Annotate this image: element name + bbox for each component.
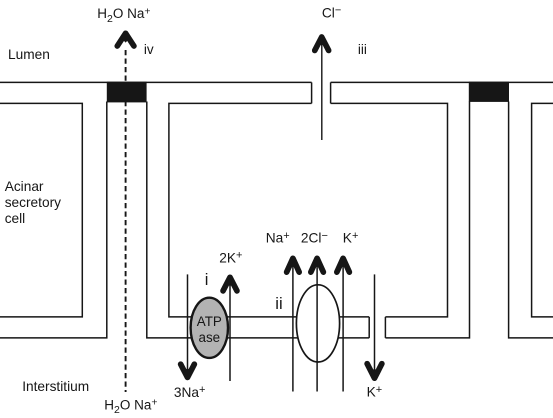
left cell inner membrane (top, right side, bottom)	[0, 103, 82, 317]
central cell inner membrane, top-left segment + left wall + bottom-left segment	[169, 103, 369, 317]
paracellular dashed pathway iv (shaft)	[125, 50, 127, 392]
svg-text:ase: ase	[199, 330, 221, 345]
central cell inner membrane, top-right segment + right wall + bottom-right segment	[331, 103, 448, 317]
central cell outer membrane, bottom-right segment + right wall	[385, 102, 469, 338]
basolateral membrane end cap (right of K+ channel gap)	[384, 317, 386, 338]
basolateral membrane end cap (left of K+ channel gap)	[368, 317, 370, 338]
arrowhead K+ leak (down)	[367, 364, 382, 379]
2Cl- arrow shaft (up, cotransporter)	[316, 265, 318, 392]
right cell outer membrane (left wall + bottom)	[509, 102, 553, 338]
svg-text:ii: ii	[275, 295, 282, 313]
svg-text:Interstitium: Interstitium	[22, 379, 89, 394]
tight junction (right, black)	[469, 82, 509, 102]
label Acinar secretory cell	[5, 179, 61, 226]
3Na+ arrow shaft (down, pump i)	[187, 274, 189, 371]
Na+ arrow shaft (up, cotransporter)	[292, 265, 294, 392]
Cl- channel arrow iii (shaft)	[321, 44, 323, 140]
left cell outer membrane (bottom and right side)	[0, 102, 107, 338]
tight junction (left, black)	[107, 82, 147, 103]
central cell outer membrane, left wall + bottom-left segment	[147, 102, 369, 338]
right cell inner membrane (top, left wall, bottom)	[532, 103, 553, 317]
K+ arrow shaft (up, cotransporter)	[342, 265, 344, 392]
K+ leak channel arrow shaft (down)	[374, 274, 376, 372]
Na-K-2Cl cotransporter (white ellipse, ii)	[296, 285, 339, 362]
svg-text:iv: iv	[144, 42, 154, 57]
apical membrane outer line, right segment	[331, 81, 553, 83]
apical membrane end cap (right of Cl- channel gap)	[330, 82, 332, 103]
arrowhead iii (up)	[315, 37, 329, 50]
arrowhead K+ (up)	[337, 258, 350, 272]
arrowhead 3Na+ (down)	[181, 364, 195, 377]
Na/K ATPase pump (gray ellipse)	[191, 298, 228, 358]
arrowhead iv (up)	[117, 33, 134, 46]
svg-text:i: i	[205, 271, 209, 289]
svg-text:cell: cell	[5, 211, 26, 226]
2K+ arrow shaft (up, pump i)	[229, 283, 231, 381]
label ATP ase	[197, 314, 222, 345]
arrowhead 2K+ (up)	[223, 277, 237, 291]
svg-text:Lumen: Lumen	[8, 47, 50, 62]
svg-text:secretory: secretory	[5, 195, 61, 210]
svg-text:iii: iii	[358, 42, 367, 57]
arrowhead Na+ (up)	[287, 258, 300, 272]
apical membrane end cap (left of Cl- channel gap)	[311, 82, 313, 103]
svg-text:ATP: ATP	[197, 314, 222, 329]
svg-text:Acinar: Acinar	[5, 179, 44, 194]
apical membrane outer line, left segment	[0, 81, 312, 83]
arrowhead 2Cl- (up)	[311, 258, 324, 272]
